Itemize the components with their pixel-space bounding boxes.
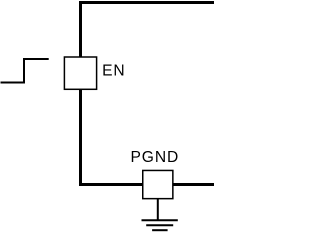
pin box PGND (143, 170, 173, 198)
svg-text:EN: EN (102, 63, 125, 80)
ground (142, 220, 178, 230)
pin box EN (64, 57, 96, 89)
svg-text:PGND: PGND (131, 149, 180, 166)
wire: PGND box to ground (157, 199, 159, 221)
step input waveform (rising edge) (1, 59, 49, 83)
wire: top net from right edge down to EN box (81, 3, 215, 58)
wire: EN box down to PGND net along bottom to right edge (81, 89, 215, 185)
